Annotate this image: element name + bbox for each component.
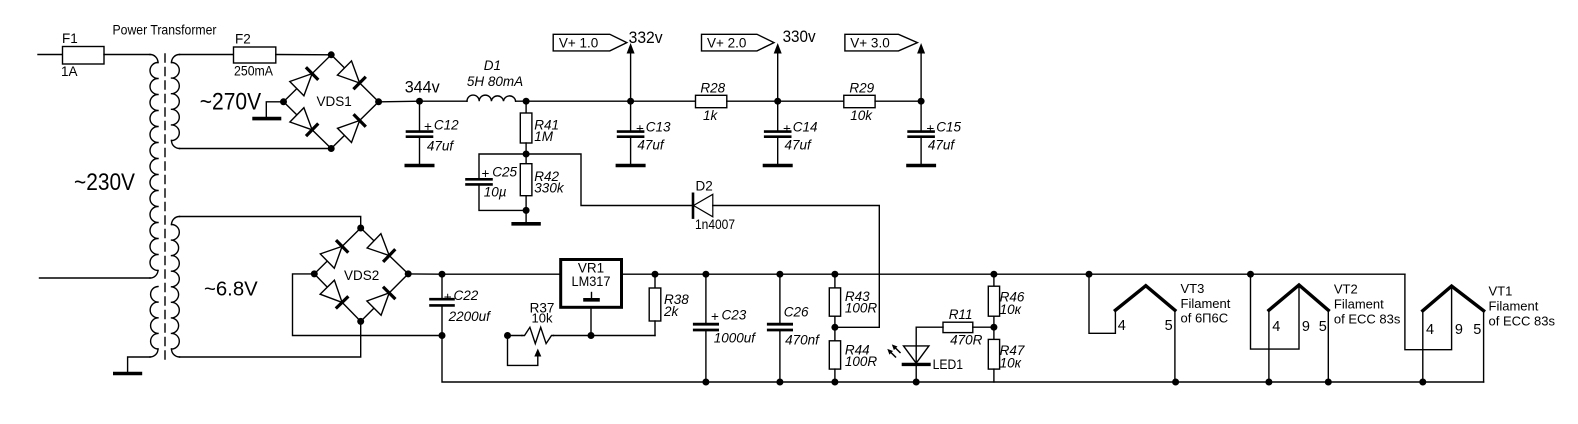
bottom rail LED to VT3 pin5 <box>916 381 1175 383</box>
arrow head V+3.0 <box>917 43 925 54</box>
node LED bottom <box>913 379 920 386</box>
diode D2 <box>692 194 695 218</box>
wire secondary2 top to VDS2 <box>180 217 361 229</box>
svg-text:D2: D2 <box>696 179 713 194</box>
VDS1 diode TR <box>337 61 359 83</box>
svg-text:+: + <box>424 119 432 134</box>
mid rail R37 to R38 <box>554 335 656 337</box>
svg-text:R28: R28 <box>700 81 725 96</box>
resistor R11 <box>943 322 973 332</box>
VT2 pin5 to bottom rail <box>1327 310 1329 382</box>
svg-text:10к: 10к <box>1000 302 1022 317</box>
LED1 triangle <box>904 346 929 363</box>
svg-text:4: 4 <box>1426 322 1434 338</box>
flag V+ 2.0 <box>702 34 775 51</box>
fuse F1 <box>63 54 105 56</box>
svg-text:100R: 100R <box>845 301 878 316</box>
resistor R28 <box>696 95 727 107</box>
svg-text:47uf: 47uf <box>637 138 665 153</box>
VDS2 diode TL <box>320 246 342 268</box>
wire 330v node up to arrow <box>777 53 779 102</box>
heater rail C26 to R43 <box>780 273 835 275</box>
svg-text:VDS2: VDS2 <box>344 268 379 283</box>
resistor R42 <box>525 154 527 164</box>
svg-text:LM317: LM317 <box>572 274 611 289</box>
VT3 filament roof <box>1115 286 1175 311</box>
capacitor C14 <box>777 101 779 131</box>
node 330v <box>774 98 781 105</box>
svg-text:~230V: ~230V <box>74 169 136 196</box>
svg-text:C23: C23 <box>722 307 747 322</box>
capacitor C13 <box>630 101 632 131</box>
svg-text:+: + <box>482 166 490 181</box>
heater rail R43 to R46 <box>835 273 994 275</box>
svg-text:+: + <box>636 121 644 136</box>
flag V+ 1.0 <box>553 34 627 51</box>
VDS2 diode TR <box>367 234 389 256</box>
node R43/R44 junction <box>831 324 838 331</box>
node R38 top <box>652 271 659 278</box>
node VT3 pin5 bottom <box>1172 379 1179 386</box>
VT2 filament roof <box>1269 285 1328 310</box>
node R44 bottom <box>831 379 838 386</box>
capacitor C26 <box>779 274 781 324</box>
svg-text:2200uf: 2200uf <box>448 309 492 324</box>
rail R29 to V+3 node <box>875 100 921 102</box>
svg-text:1n4007: 1n4007 <box>695 217 735 232</box>
svg-text:C12: C12 <box>434 118 459 133</box>
svg-text:47uf: 47uf <box>427 139 455 154</box>
node VT1 pin4 bottom <box>1419 379 1426 386</box>
transformer core (dashed) <box>164 54 166 361</box>
transformer primary winding <box>150 55 158 63</box>
svg-text:+: + <box>926 121 934 136</box>
resistor R43 <box>834 274 836 288</box>
wire lower winding to ground <box>128 357 150 372</box>
heater rail C23 to C26 <box>706 273 780 275</box>
svg-text:47uf: 47uf <box>928 138 956 153</box>
italic component labels <box>424 58 1025 371</box>
svg-text:1M: 1M <box>534 129 554 144</box>
wire R11 to LED1 <box>916 327 943 364</box>
wire R11 to R46/R47 junction <box>973 326 994 328</box>
LED1 emission arrows <box>895 348 900 353</box>
transformer secondary 2 winding (~6.8V) <box>172 217 180 225</box>
rail D1 to 332v node <box>516 100 631 102</box>
resistor R29 <box>844 95 875 107</box>
svg-text:5: 5 <box>1319 319 1327 335</box>
wire AC input top to F1 <box>38 54 63 56</box>
ground bar under transformer <box>115 372 141 376</box>
choke D1 <box>467 95 516 101</box>
svg-text:470R: 470R <box>950 333 983 348</box>
node C26 bottom <box>776 379 783 386</box>
svg-text:1A: 1A <box>61 64 78 79</box>
svg-text:C22: C22 <box>454 288 479 303</box>
svg-text:C15: C15 <box>936 119 961 134</box>
mid rail R37 left segment <box>508 335 522 337</box>
svg-text:LED1: LED1 <box>933 357 964 372</box>
node VR1 ADJ <box>588 332 595 339</box>
svg-text:~6.8V: ~6.8V <box>204 278 258 301</box>
VR1 output wire to R38 <box>622 273 656 275</box>
node 344v <box>416 98 423 105</box>
capacitor C15 <box>920 101 922 131</box>
capacitor C25 wiring <box>479 154 526 179</box>
svg-text:+: + <box>783 121 791 136</box>
svg-text:F1: F1 <box>62 31 78 46</box>
svg-text:10к: 10к <box>1000 356 1022 371</box>
svg-text:Filament: Filament <box>1181 296 1231 311</box>
rail R28 to 330v node <box>727 100 778 102</box>
regulator VR1 box <box>561 260 622 308</box>
bridge rectifier VDS1 frame <box>284 55 379 149</box>
resistor R44 <box>834 327 836 341</box>
VDS2 corner nodes <box>357 225 364 232</box>
VR1 ADJ pin to mid rail <box>590 307 592 335</box>
resistor R38 <box>654 274 656 288</box>
heater rail VT3 to VT2 drop <box>1089 273 1251 275</box>
svg-text:V+ 3.0: V+ 3.0 <box>850 36 889 51</box>
svg-text:5H 80mA: 5H 80mA <box>467 74 523 89</box>
bottom rail VT3 to VT2 <box>1176 381 1269 383</box>
wire C22 bottom to bottom rail <box>442 336 706 383</box>
VR1 internal ground symbol <box>591 293 593 299</box>
node V+3 <box>918 98 925 105</box>
svg-text:1000uf: 1000uf <box>714 331 757 346</box>
node C22 top <box>439 271 446 278</box>
svg-text:+: + <box>711 309 719 324</box>
node C22 bottom <box>439 332 446 339</box>
VDS1 diode BL <box>290 108 312 130</box>
svg-text:330v: 330v <box>783 28 817 46</box>
svg-text:C25: C25 <box>492 165 517 180</box>
svg-text:5: 5 <box>1165 318 1173 334</box>
svg-text:9: 9 <box>1455 322 1463 338</box>
svg-text:4: 4 <box>1118 318 1126 334</box>
resistor R47 <box>993 327 995 339</box>
svg-text:10k: 10k <box>532 311 553 326</box>
VDS2 diode BL <box>320 280 342 302</box>
node VT2 pin4 bottom <box>1265 379 1272 386</box>
R37 wiper arm <box>508 336 538 366</box>
svg-text:330k: 330k <box>534 181 565 196</box>
svg-text:R29: R29 <box>849 81 874 96</box>
heater rail VT2 to end <box>1251 273 1405 275</box>
R37 wiper arrow head <box>534 349 541 357</box>
node C23 top <box>702 271 709 278</box>
svg-text:10µ: 10µ <box>484 185 507 200</box>
heater rail C22 to VR1 <box>442 273 561 275</box>
wire secondary1 top to F2 <box>180 54 234 56</box>
svg-text:V+ 2.0: V+ 2.0 <box>707 36 746 51</box>
heater rail R46 to VT3 <box>994 273 1089 275</box>
svg-text:C14: C14 <box>793 119 818 134</box>
transformer secondary 1 winding (~270V) <box>172 55 180 63</box>
svg-text:332v: 332v <box>629 29 664 47</box>
VT2 pin9 loop from heater rail <box>1251 274 1300 349</box>
wire 332v node up to arrow <box>630 53 632 102</box>
node D1/R41 <box>523 98 530 105</box>
arrow head V+2.0 <box>774 43 782 54</box>
svg-text:VT1: VT1 <box>1489 284 1513 299</box>
svg-text:C26: C26 <box>784 305 809 320</box>
svg-text:470nf: 470nf <box>785 333 820 348</box>
VDS2 diode BR <box>367 293 389 315</box>
VT1 pin5 to bottom rail end <box>1483 311 1485 382</box>
svg-text:D1: D1 <box>484 58 501 73</box>
svg-text:2k: 2k <box>663 304 680 319</box>
potentiometer R37 zigzag <box>522 327 554 343</box>
wire VDS1 right corner to 344v node <box>379 100 420 103</box>
bridge rectifier VDS2 frame <box>314 228 408 321</box>
svg-text:Power Transformer: Power Transformer <box>113 23 217 38</box>
main HT rail 344v node to D1 <box>420 100 468 102</box>
VT3 pin4 loop from heater rail <box>1089 274 1115 333</box>
svg-text:C13: C13 <box>646 119 671 134</box>
VDS1 corner nodes <box>328 51 335 58</box>
LED1 to bottom rail <box>915 364 917 382</box>
svg-text:100R: 100R <box>845 354 878 369</box>
node C26 top <box>776 271 783 278</box>
node R41/R42/C25 <box>523 151 530 158</box>
heater rail R38 to C23 <box>655 273 706 275</box>
capacitor C12 <box>419 101 421 131</box>
svg-text:9: 9 <box>1302 319 1310 335</box>
capacitor C22 <box>441 274 443 299</box>
wire R41/R42 junction to D2 <box>526 154 692 206</box>
svg-text:VT2: VT2 <box>1334 282 1358 297</box>
transformer grounded winding lower-left <box>150 287 158 350</box>
node R46 top <box>990 271 997 278</box>
svg-text:Filament: Filament <box>1334 297 1384 312</box>
svg-text:+: + <box>444 290 452 305</box>
bottom rail C23 to LED <box>706 381 916 383</box>
node VT2 pin5 bottom <box>1325 379 1332 386</box>
node VT2 pin9 rail <box>1247 271 1254 278</box>
rail 332v node to R28 <box>631 100 696 102</box>
node 332v <box>627 98 634 105</box>
capacitor C23 <box>705 274 707 324</box>
svg-text:VDS1: VDS1 <box>317 94 352 109</box>
rail 330v node to R29 <box>778 100 844 102</box>
resistor R46 <box>993 274 995 286</box>
LED1 cathode bar <box>903 363 929 366</box>
VT3 pin5 to bottom rail <box>1174 310 1176 382</box>
wire V+3 node up to arrow <box>920 53 922 102</box>
node R43 top <box>831 271 838 278</box>
svg-text:10k: 10k <box>850 108 873 123</box>
node R42/C25/ground <box>523 207 530 214</box>
wire D2 to R43/R44 junction <box>713 206 880 328</box>
svg-text:V+ 1.0: V+ 1.0 <box>559 36 598 51</box>
wire AC input bottom to primary <box>40 277 151 279</box>
VT1 filament roof <box>1423 286 1484 311</box>
arrow head V+1.0 <box>627 43 635 54</box>
VDS1 diode BR <box>338 121 360 143</box>
VDS1 diode TL <box>290 74 312 96</box>
fuse F2 <box>234 54 276 56</box>
bottom rail VT2 to VT1 <box>1269 381 1484 383</box>
svg-text:250mA: 250mA <box>234 64 273 79</box>
wire VDS2 right corner to VR1 input <box>408 273 442 275</box>
svg-text:47uf: 47uf <box>785 138 813 153</box>
svg-text:F2: F2 <box>235 32 251 47</box>
node VT3 pin4 rail <box>1086 271 1093 278</box>
node R46/R47 junction <box>990 324 997 331</box>
svg-text:344v: 344v <box>405 79 441 97</box>
svg-text:of ECC 83s: of ECC 83s <box>1334 311 1401 326</box>
svg-text:VT3: VT3 <box>1181 281 1205 296</box>
node C23 bottom <box>702 379 709 386</box>
node R37 left <box>504 332 511 339</box>
svg-text:of 6П6С: of 6П6С <box>1181 311 1229 326</box>
svg-text:Filament: Filament <box>1489 299 1539 314</box>
wire VDS2 left corner loop to mid rail <box>293 274 443 336</box>
resistor R41 <box>525 101 527 113</box>
svg-text:~270V: ~270V <box>200 89 262 116</box>
ground bar under R42 <box>513 222 539 226</box>
wire R42 bottom to ground <box>525 210 527 222</box>
wire F2 to VDS1 top corner <box>276 54 331 56</box>
VT1 pin4 to bottom rail <box>1422 311 1424 382</box>
svg-text:1k: 1k <box>703 108 719 123</box>
ground bar at VDS1 <box>254 117 279 121</box>
flag V+ 3.0 <box>845 34 918 51</box>
wire F1 to transformer primary <box>104 54 150 56</box>
big voltage labels <box>74 89 262 197</box>
wire VDS1 left corner to ground <box>266 102 283 117</box>
svg-text:of ECC 83s: of ECC 83s <box>1489 313 1556 328</box>
svg-text:4: 4 <box>1272 319 1280 335</box>
wire secondary2 bottom to VDS2 bottom corner <box>180 321 361 357</box>
VT2 pin4 to bottom rail <box>1268 310 1270 382</box>
svg-text:R11: R11 <box>949 307 973 322</box>
VT1 pin9 loop from heater rail <box>1405 274 1452 350</box>
wire secondary1 bottom to VDS1 bottom corner <box>180 148 332 150</box>
svg-text:5: 5 <box>1473 322 1481 338</box>
